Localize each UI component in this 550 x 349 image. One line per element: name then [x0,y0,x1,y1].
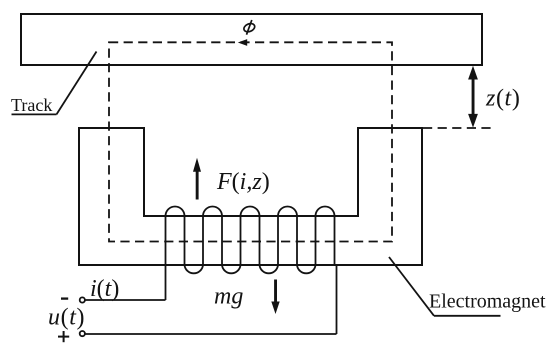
svg-text:u(t): u(t) [48,304,85,330]
svg-text:i(t): i(t) [90,276,119,302]
svg-text:z(t): z(t) [485,85,520,111]
svg-text:Electromagnet: Electromagnet [429,291,546,313]
svg-text:F(i,z): F(i,z) [216,169,270,195]
svg-text:Track: Track [11,95,52,115]
svg-text:mg: mg [214,283,243,309]
